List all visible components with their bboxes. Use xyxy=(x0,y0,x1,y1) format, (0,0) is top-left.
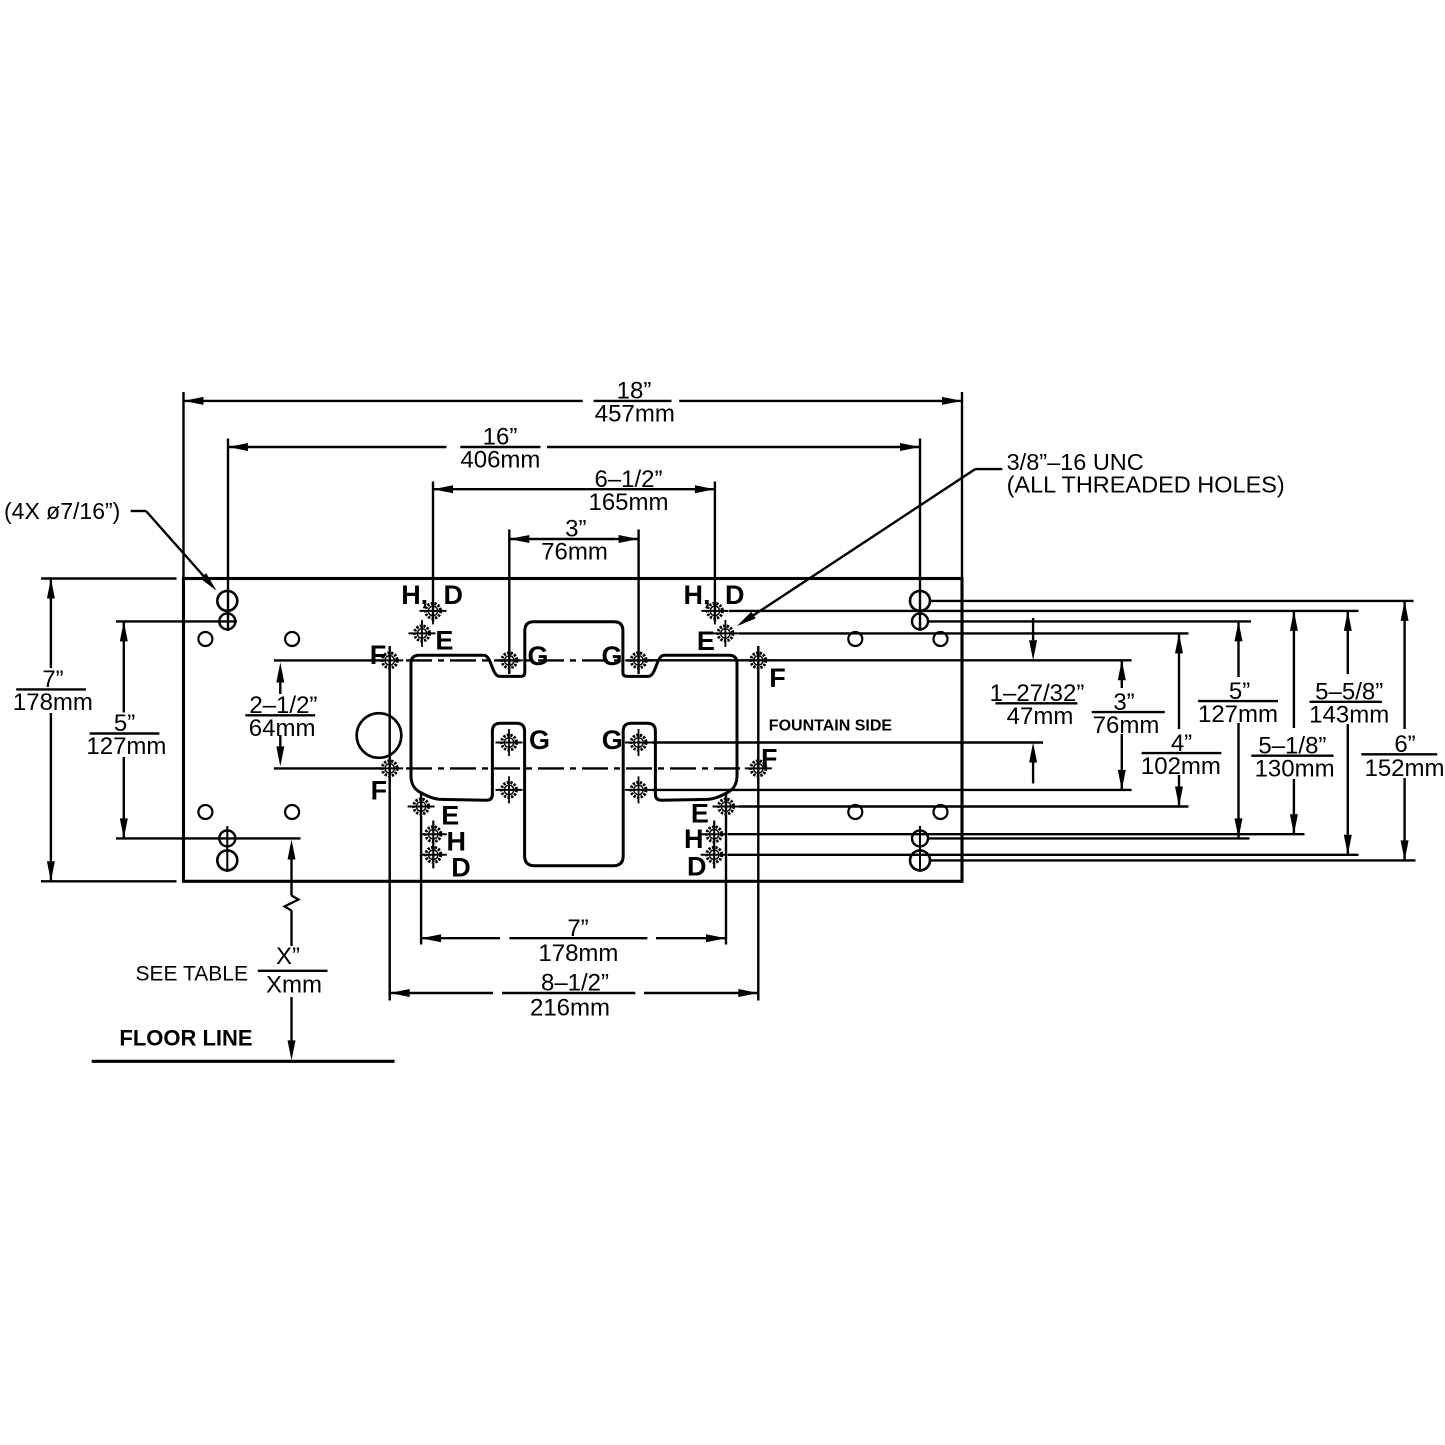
hole G mid-left xyxy=(496,729,523,756)
svg-text:H: H xyxy=(684,824,704,854)
svg-text:FLOOR LINE: FLOOR LINE xyxy=(119,1026,252,1051)
svg-text:8–1/2”: 8–1/2” xyxy=(541,970,609,997)
svg-text:X”: X” xyxy=(276,943,300,970)
dimension 4in/102mm xyxy=(1178,633,1180,729)
large hole left xyxy=(357,713,402,758)
dimension 16in/406mm xyxy=(227,439,229,632)
corner hole 7/16 top-right xyxy=(910,591,930,611)
dimension 6-1/2in/165mm xyxy=(432,482,434,623)
dimension 3in/76mm top xyxy=(508,530,510,675)
dimension 7in/178mm bottom xyxy=(420,793,422,945)
svg-text:64mm: 64mm xyxy=(249,715,316,742)
dimension 7in/178mm left xyxy=(41,577,177,579)
svg-text:D: D xyxy=(725,580,745,610)
svg-text:47mm: 47mm xyxy=(1007,703,1074,730)
mount hole bottom-left xyxy=(219,830,235,846)
dimension 5-5/8in/143mm xyxy=(1347,611,1349,674)
extension line 7/16-hole row top xyxy=(930,600,1414,602)
small hole top row 1 xyxy=(198,632,212,646)
extension line G mid row xyxy=(652,741,1043,743)
svg-text:F: F xyxy=(371,776,388,806)
break zigzag xyxy=(285,896,299,911)
hole G top-right xyxy=(625,647,652,674)
hole F bottom-left xyxy=(376,755,403,782)
mount hole top-left xyxy=(219,613,235,629)
mount hole bottom-right xyxy=(912,830,928,846)
svg-text:6”: 6” xyxy=(1394,731,1415,758)
centerline H/D bottom-right xyxy=(713,821,715,869)
svg-text:216mm: 216mm xyxy=(530,995,610,1022)
corner hole 7/16 bottom-left xyxy=(217,850,237,870)
svg-text:H,: H, xyxy=(401,580,428,610)
hole D bottom-right xyxy=(701,841,728,868)
small hole top row 4 xyxy=(934,632,948,646)
mounting plate outline xyxy=(184,579,963,882)
svg-text:143mm: 143mm xyxy=(1309,702,1389,729)
corner centerline bottom-right xyxy=(919,826,921,872)
extension line 7/16-hole row bottom xyxy=(930,859,1416,861)
svg-text:152mm: 152mm xyxy=(1364,755,1444,782)
svg-text:Xmm: Xmm xyxy=(266,971,322,998)
extension line H bottom row xyxy=(728,833,1305,835)
hole G top-left xyxy=(496,647,523,674)
svg-text:76mm: 76mm xyxy=(541,539,608,566)
extension line D bottom row xyxy=(728,854,1359,856)
hole E bottom-left xyxy=(408,793,435,820)
dimension 3in/76mm right xyxy=(1121,660,1123,688)
mount hole top-right xyxy=(912,613,928,629)
corner centerline bottom-left xyxy=(226,826,228,872)
extension line lower hole row xyxy=(652,789,1132,791)
hole lower-right xyxy=(625,776,652,803)
svg-text:H,: H, xyxy=(684,580,711,610)
svg-text:F: F xyxy=(370,640,387,670)
extension line E row top xyxy=(739,632,1189,634)
dimension 6in/152mm xyxy=(1403,601,1405,729)
svg-text:(4X ø7/16”): (4X ø7/16”) xyxy=(4,498,120,524)
dimension 5in/127mm left xyxy=(116,620,237,622)
svg-text:178mm: 178mm xyxy=(538,940,618,967)
dimension 1-27/32in/47mm xyxy=(1032,618,1034,640)
svg-text:E: E xyxy=(697,626,715,656)
dimension 8-1/2in/216mm xyxy=(389,646,391,1001)
svg-text:D: D xyxy=(451,853,471,883)
centerline H/D bottom-left xyxy=(432,821,434,869)
dimension 5-1/8in/130mm xyxy=(1293,611,1295,728)
hole lower-left xyxy=(496,776,523,803)
hole H bottom-left xyxy=(420,821,447,848)
svg-text:127mm: 127mm xyxy=(86,733,166,760)
svg-text:F: F xyxy=(761,744,778,774)
small hole bottom row 1 xyxy=(198,805,212,819)
hole H,D top-left xyxy=(420,597,447,624)
hole F top-left xyxy=(376,647,403,674)
svg-text:457mm: 457mm xyxy=(595,401,675,428)
svg-text:SEE TABLE: SEE TABLE xyxy=(136,962,248,985)
dimension X table xyxy=(288,840,296,860)
small hole top row 3 xyxy=(848,632,862,646)
hole G mid-right xyxy=(625,729,652,756)
hole F top-right xyxy=(745,647,772,674)
corner hole 7/16 bottom-right xyxy=(910,850,930,870)
extension line H,D row top xyxy=(729,610,1359,612)
svg-text:E: E xyxy=(435,626,453,656)
extension line mount row top xyxy=(928,620,1251,622)
extension line mount row bottom xyxy=(928,837,1250,839)
dimension 18in/457mm xyxy=(182,392,184,579)
svg-text:127mm: 127mm xyxy=(1198,701,1278,728)
central cutout xyxy=(411,622,737,866)
extension line E bottom row xyxy=(739,805,1189,807)
svg-text:F: F xyxy=(769,663,786,693)
svg-text:G: G xyxy=(602,641,623,671)
svg-text:76mm: 76mm xyxy=(1093,712,1160,739)
svg-text:D: D xyxy=(687,852,707,882)
svg-text:165mm: 165mm xyxy=(588,489,668,516)
dimension 5in/127mm right xyxy=(1237,621,1239,677)
corner hole 7/16 top-left xyxy=(217,591,237,611)
hole H bottom-right xyxy=(701,821,728,848)
hole E top-left xyxy=(409,620,436,647)
svg-text:D: D xyxy=(444,580,464,610)
hole H,D top-right xyxy=(701,597,728,624)
dimension 2-1/2in/64mm xyxy=(274,659,383,661)
svg-text:102mm: 102mm xyxy=(1141,753,1221,780)
small hole bottom row 2 xyxy=(285,805,299,819)
svg-text:130mm: 130mm xyxy=(1255,755,1335,782)
svg-text:178mm: 178mm xyxy=(13,689,93,716)
svg-text:FOUNTAIN SIDE: FOUNTAIN SIDE xyxy=(769,717,893,734)
small hole bottom row 3 xyxy=(848,805,862,819)
centerline lower F row xyxy=(406,767,745,769)
centerline upper G/F row xyxy=(406,659,652,661)
floor line xyxy=(92,1060,395,1063)
hole F bottom-right xyxy=(745,755,772,782)
svg-text:7”: 7” xyxy=(567,915,588,942)
hole D bottom-left xyxy=(420,841,447,868)
svg-text:(ALL THREADED HOLES): (ALL THREADED HOLES) xyxy=(1007,472,1285,498)
hole E bottom-right xyxy=(713,793,740,820)
svg-text:406mm: 406mm xyxy=(460,447,540,474)
small hole top row 2 xyxy=(285,632,299,646)
small hole bottom row 4 xyxy=(934,805,948,819)
svg-text:G: G xyxy=(529,725,550,755)
svg-text:G: G xyxy=(602,725,623,755)
hole E top-right xyxy=(712,620,739,647)
svg-text:G: G xyxy=(528,641,549,671)
extension line G/F row xyxy=(648,659,1132,661)
